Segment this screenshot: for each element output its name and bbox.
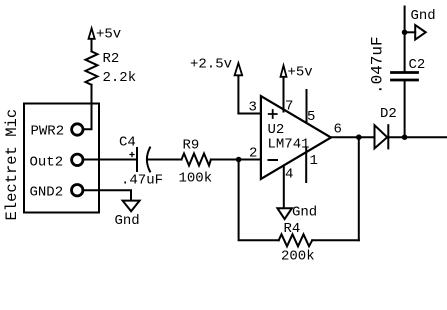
svg-text:2: 2 (249, 146, 257, 162)
wire pin 1 stub (305, 148, 307, 182)
diode D2 (375, 125, 389, 148)
svg-text:+2.5v: +2.5v (190, 57, 232, 73)
svg-text:R2: R2 (103, 51, 120, 67)
pin GND2 circle (72, 185, 83, 196)
svg-text:1: 1 (310, 153, 318, 169)
svg-text:C2: C2 (409, 57, 426, 73)
svg-text:Electret Mic: Electret Mic (3, 109, 21, 221)
power +2.5v arrow (235, 63, 243, 75)
ground (left) (123, 201, 140, 212)
node junction Gnd arrow (402, 30, 408, 36)
svg-text:200k: 200k (281, 249, 315, 265)
wire R4 to feedback right (312, 239, 359, 241)
power +5v arrow (top left) (89, 28, 95, 39)
svg-text:2.2k: 2.2k (103, 70, 137, 86)
wire R9 to pin 2 (211, 159, 261, 161)
svg-text:6: 6 (334, 122, 342, 138)
svg-text:PWR2: PWR2 (31, 123, 65, 139)
connector J (Electret Mic) box (24, 104, 99, 213)
wire feedback bottom left (239, 160, 279, 241)
wire R2 to PWR2 (84, 85, 91, 130)
resistor R2 (86, 51, 98, 84)
svg-text:3: 3 (249, 100, 257, 116)
svg-text:LM741: LM741 (268, 137, 310, 153)
ground (op-amp) (277, 208, 292, 219)
pin PWR2 circle (72, 124, 83, 135)
wire Gnd arrow stub (405, 31, 416, 33)
wire Out2 to C4 (84, 159, 136, 161)
wire pin 4 (283, 166, 285, 208)
svg-text:C4: C4 (119, 135, 136, 151)
svg-text:Gnd: Gnd (411, 8, 436, 24)
op-amp U2 triangle (261, 96, 331, 179)
svg-text:R4: R4 (284, 221, 301, 237)
ground arrow (top right) (415, 25, 426, 40)
svg-text:+5v: +5v (96, 27, 121, 43)
svg-text:.47uF: .47uF (121, 173, 163, 189)
svg-text:100k: 100k (179, 171, 213, 187)
wire C2 bottom (404, 81, 406, 137)
svg-text:+5v: +5v (288, 65, 313, 81)
svg-text:7: 7 (285, 99, 293, 115)
svg-text:Gnd: Gnd (292, 205, 317, 221)
wire +2.5v to pin 3 (238, 76, 261, 113)
wire pin 5 stub (306, 90, 308, 122)
capacitor C4 (130, 148, 150, 172)
op-amp minus input mark (269, 159, 278, 161)
resistor R4 (279, 234, 313, 246)
svg-text:4: 4 (285, 167, 293, 183)
svg-text:GND2: GND2 (30, 185, 64, 201)
wire C2 top to Gnd (404, 7, 406, 72)
pin Out2 circle (72, 154, 83, 165)
resistor R9 (182, 154, 211, 166)
wire diode to right edge (388, 136, 447, 138)
wire +5v to R2 (91, 40, 93, 52)
node junction at pin2/feedback (236, 157, 242, 163)
wire pin 7 (283, 78, 285, 112)
node junction diode/C2 (402, 134, 408, 140)
power +5v arrow (op-amp pin 7) (281, 66, 287, 77)
svg-text:.047uF: .047uF (369, 36, 387, 94)
wire feedback right vertical (358, 137, 360, 240)
node junction output/feedback (356, 134, 362, 140)
svg-text:Gnd: Gnd (115, 213, 140, 229)
svg-text:D2: D2 (380, 106, 397, 122)
capacitor C2 (392, 73, 418, 81)
op-amp plus input mark (269, 110, 277, 118)
svg-text:R9: R9 (183, 138, 200, 154)
svg-text:Out2: Out2 (30, 155, 64, 171)
wire GND2 to ground (84, 190, 131, 200)
svg-text:5: 5 (307, 109, 315, 125)
wire output pin 6 to right edge (331, 136, 375, 138)
wire C4 to R9 (149, 159, 182, 161)
